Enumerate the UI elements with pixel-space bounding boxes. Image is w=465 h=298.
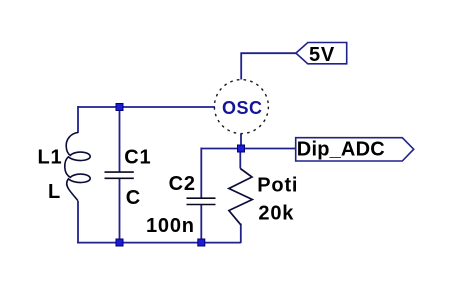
wire top rail from inductor to OSC: [78, 106, 215, 108]
op-amp U1 OSC dashed circle: [214, 80, 268, 134]
wire node A horizontal C2 to Dip_ADC: [201, 148, 295, 150]
wire C2 top lead: [200, 148, 202, 199]
wire inductor bottom lead: [77, 201, 79, 243]
resistor Poti zigzag: [229, 169, 252, 225]
wire C1 top lead: [119, 107, 121, 172]
svg-text:5V: 5V: [309, 44, 335, 66]
junction node A (OSC out): [238, 145, 245, 152]
capacitor C1 plates: [105, 172, 134, 178]
svg-text:Poti: Poti: [257, 175, 298, 197]
junction node top (C1 top): [116, 104, 123, 111]
capacitor C2 plates: [187, 198, 216, 204]
svg-text:20k: 20k: [258, 203, 294, 225]
5V supply flag: [296, 43, 347, 64]
Dip_ADC net flag: [296, 138, 414, 161]
wire C1 bottom lead: [119, 179, 121, 244]
svg-text:L: L: [48, 181, 61, 203]
wire poti bottom lead: [240, 224, 242, 244]
inductor L1 coil: [65, 133, 90, 201]
svg-text:100n: 100n: [146, 215, 195, 237]
junction node bottom C1: [116, 239, 123, 246]
svg-text:C2: C2: [169, 173, 196, 195]
svg-text:OSC: OSC: [222, 98, 263, 118]
wire OSC top lead to 5V: [241, 53, 296, 79]
junction node bottom C2: [198, 239, 205, 246]
wire C2 bottom lead: [200, 205, 202, 244]
svg-text:C: C: [126, 187, 141, 209]
wire OSC bottom lead: [240, 134, 242, 149]
wire inductor top lead: [77, 106, 79, 133]
svg-text:L1: L1: [38, 147, 63, 169]
svg-text:C1: C1: [124, 147, 151, 169]
svg-text:Dip_ADC: Dip_ADC: [297, 139, 385, 161]
wire poti top lead: [239, 149, 241, 169]
wire bottom rail: [77, 242, 241, 244]
